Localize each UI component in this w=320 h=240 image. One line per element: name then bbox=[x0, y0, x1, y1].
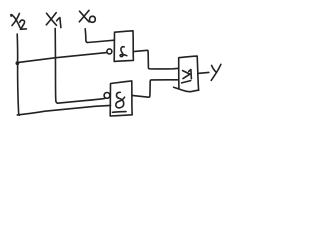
gate U3 OR box sides and top bbox=[179, 56, 199, 90]
wire U1 output run to OR gate bbox=[133, 50, 177, 69]
wire x2 bottom horizontal to gate U2 lower input bbox=[17, 105, 110, 115]
gate U3 label >= underline bbox=[182, 81, 191, 83]
gate U3 OR box wavy bottom edge bbox=[174, 87, 199, 91]
gate U1 AND box bbox=[114, 31, 133, 62]
wire x0 horizontal to U1 top input bbox=[88, 40, 115, 42]
node junction on x2 line bbox=[16, 61, 20, 65]
gate U3 label 1 bbox=[189, 70, 192, 79]
output label Y bbox=[211, 64, 221, 80]
wire x1 horizontal to U2 inverted input bbox=[58, 98, 105, 103]
gate U1 input bubble bbox=[107, 49, 112, 54]
wire x1 vertical run bbox=[55, 28, 57, 103]
gate U2 AND box bbox=[110, 81, 132, 116]
wire x2 vertical run down to bottom corner bbox=[17, 34, 19, 115]
wire U2 output run to OR gate bbox=[132, 80, 178, 97]
wire Y output bbox=[198, 72, 209, 73]
gate U1 label & bbox=[120, 47, 127, 57]
input label x1 bbox=[46, 13, 61, 28]
input label x0 bbox=[79, 10, 95, 22]
wire x0 vertical run bbox=[85, 29, 87, 43]
gate U3 label >= stroke bbox=[183, 71, 190, 79]
wire branch from x2 junction to U1 inverted input bbox=[17, 53, 106, 63]
gate U2 label & bbox=[116, 92, 125, 108]
gate U2 label underline bbox=[113, 111, 127, 114]
input label x2 bbox=[11, 13, 27, 29]
gate U2 input bubble bbox=[104, 93, 110, 99]
